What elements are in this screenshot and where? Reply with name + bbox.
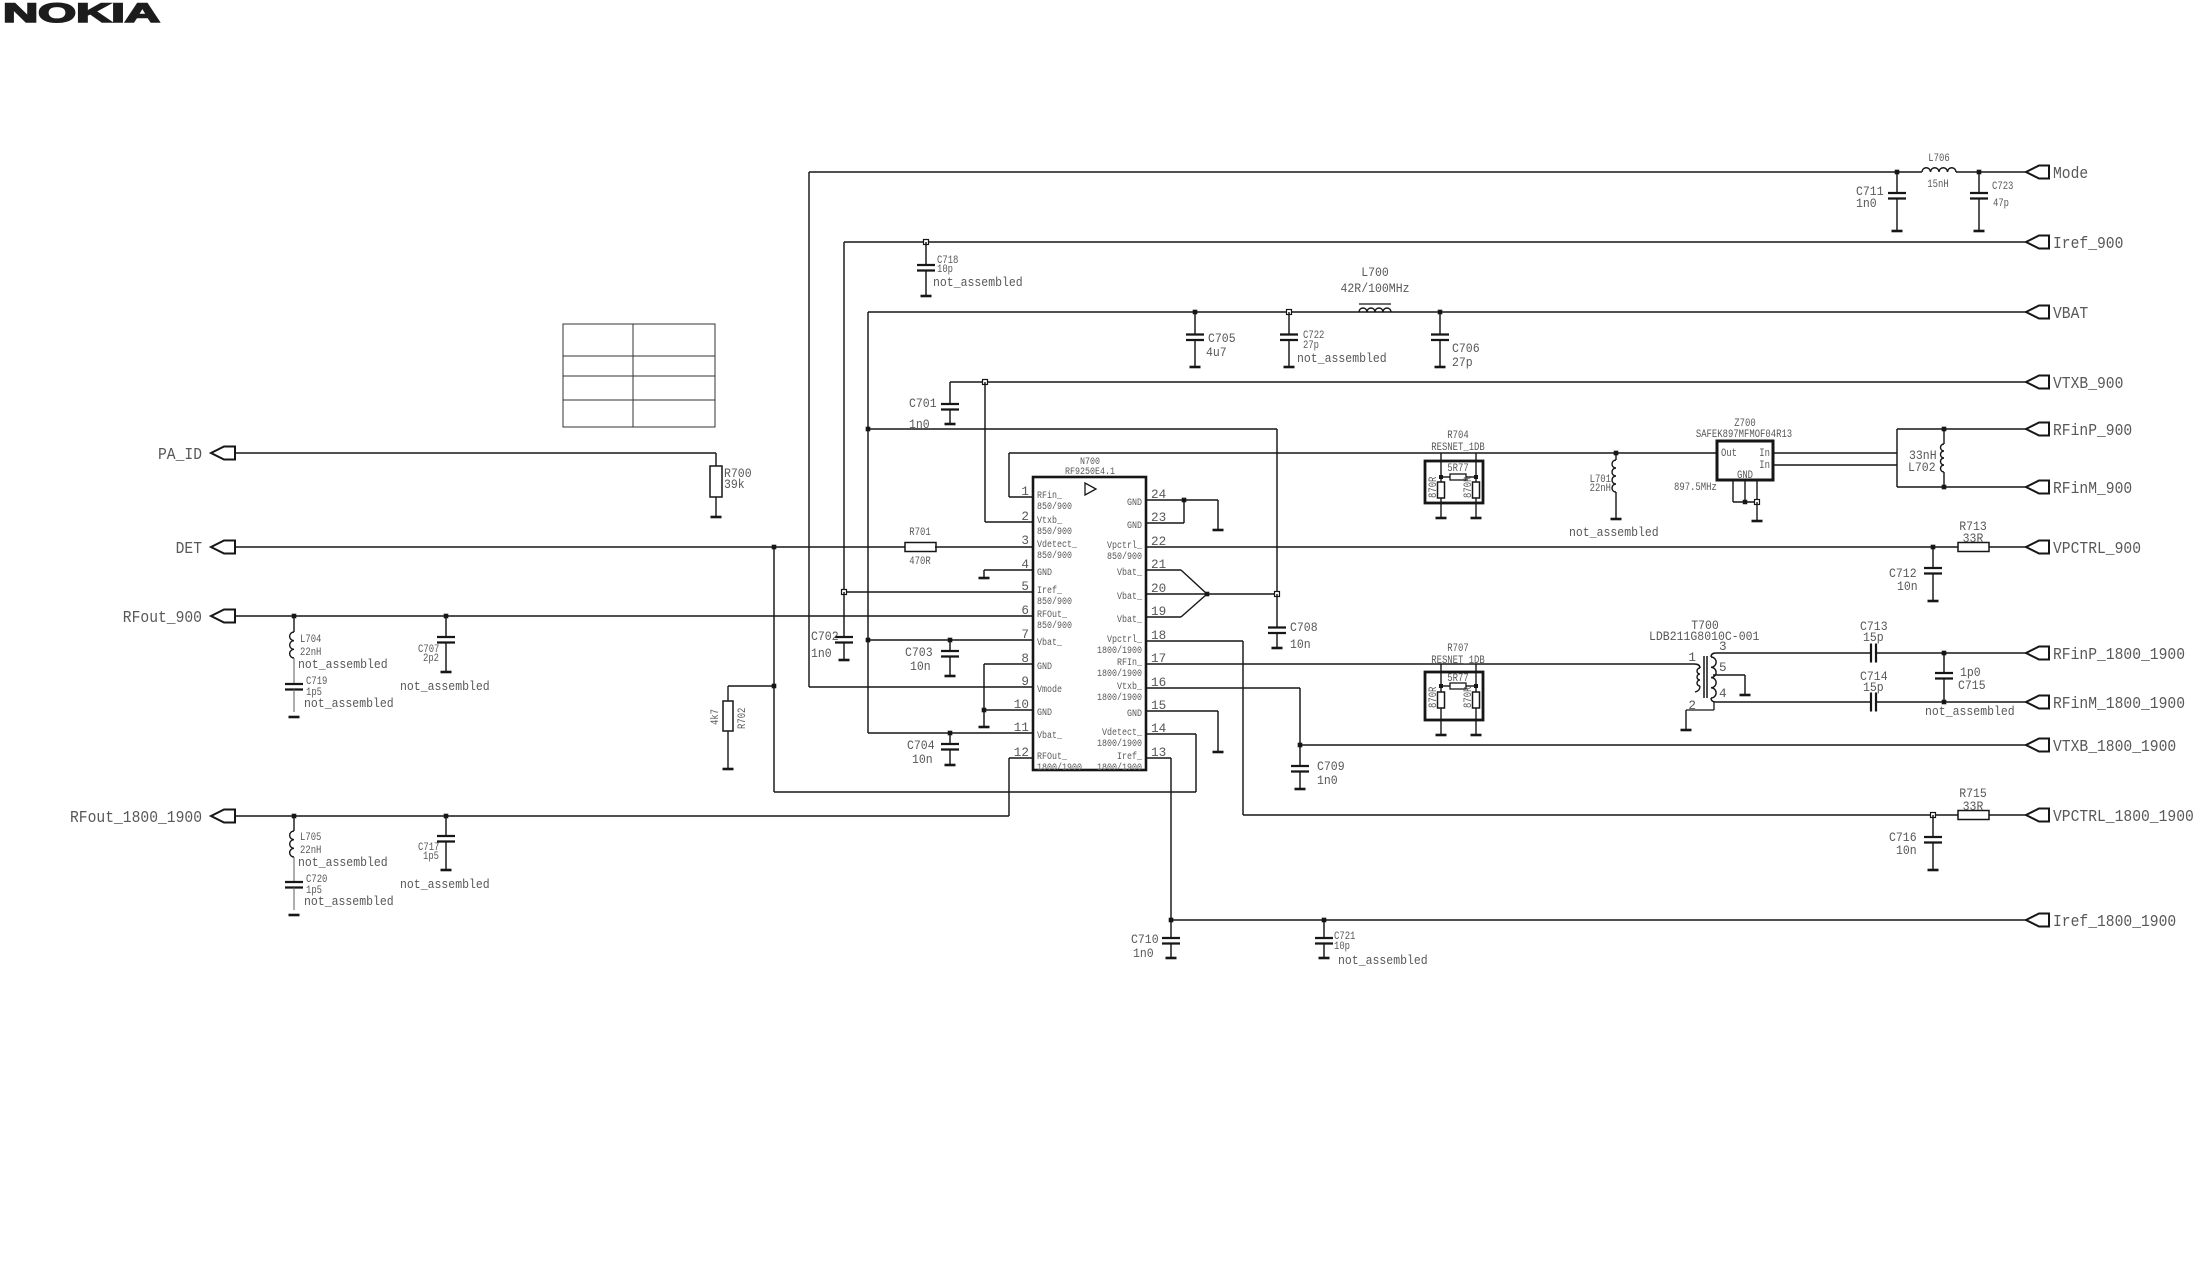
connector VTXB_900 [2026, 376, 2049, 389]
ground [1213, 751, 1224, 754]
ground [979, 726, 990, 729]
capacitor C721 (not assembled) [1323, 920, 1325, 938]
svg-text:R702: R702 [737, 708, 749, 729]
svg-text:850/900: 850/900 [1037, 550, 1072, 562]
capacitor C715 1p0 (not assembled) [1943, 653, 1945, 673]
wire VTXB_900 to pin 2 [984, 382, 986, 522]
svg-text:C715: C715 [1958, 678, 1986, 693]
svg-text:1n0: 1n0 [909, 417, 930, 432]
wire VBAT to pin 7 [868, 639, 1033, 641]
svg-text:VPCTRL_1800_1900: VPCTRL_1800_1900 [2053, 808, 2194, 827]
svg-text:not_assembled: not_assembled [298, 855, 388, 870]
svg-text:2: 2 [1021, 510, 1029, 524]
svg-text:Iref_900: Iref_900 [2053, 235, 2123, 254]
resistor network R707 RESNET_1DB [1425, 672, 1483, 720]
svg-text:Vtxb_: Vtxb_ [1037, 515, 1063, 527]
node C717 top [444, 814, 449, 819]
node L701 top [1614, 451, 1619, 456]
svg-text:1800/1900: 1800/1900 [1097, 645, 1142, 657]
svg-text:RFOut_: RFOut_ [1037, 610, 1068, 621]
node C703 top [948, 638, 953, 643]
svg-text:L706: L706 [1928, 153, 1949, 165]
svg-text:10n: 10n [1290, 637, 1311, 652]
svg-text:42R/100MHz: 42R/100MHz [1341, 281, 1410, 296]
svg-text:C705: C705 [1208, 331, 1236, 346]
connector VPCTRL_900 [2026, 541, 2049, 554]
svg-text:RESNET_1DB: RESNET_1DB [1431, 442, 1485, 454]
resistor network R704 RESNET_1DB [1425, 461, 1483, 503]
junction [1182, 498, 1187, 503]
svg-text:22nH: 22nH [1590, 483, 1611, 495]
ground [1681, 729, 1692, 732]
svg-text:In: In [1759, 448, 1770, 460]
svg-text:14: 14 [1151, 722, 1166, 736]
ground [723, 768, 734, 771]
node C715 bottom [1942, 700, 1947, 705]
ground pins 8,10 [984, 663, 1033, 665]
svg-text:RFinP_1800_1900: RFinP_1800_1900 [2053, 646, 2185, 665]
svg-text:C704: C704 [907, 738, 935, 753]
node C711 top [1895, 170, 1900, 175]
wire T700 pin 4 [1716, 701, 1871, 703]
svg-text:1: 1 [1688, 651, 1696, 665]
svg-text:1800/1900: 1800/1900 [1097, 692, 1142, 704]
junction Vbat [1205, 592, 1210, 597]
ground [1752, 520, 1763, 523]
svg-text:RFIn_: RFIn_ [1117, 658, 1143, 669]
svg-text:VPCTRL_900: VPCTRL_900 [2053, 540, 2141, 559]
node pin2 branch [983, 380, 988, 385]
node L705 top [292, 814, 297, 819]
svg-text:C702: C702 [811, 629, 839, 644]
svg-text:GND: GND [1127, 521, 1142, 532]
capacitor C716 [1932, 815, 1934, 837]
capacitor C718 (not assembled) [925, 242, 927, 265]
svg-text:39k: 39k [724, 477, 745, 492]
svg-text:6: 6 [1021, 604, 1029, 618]
svg-text:L702: L702 [1908, 460, 1936, 475]
svg-text:SAFEK897MFMOF04R13: SAFEK897MFMOF04R13 [1696, 429, 1792, 441]
svg-text:870R: 870R [1428, 476, 1440, 498]
capacitor C717 1p5 (not assembled) [445, 816, 447, 836]
svg-text:R701: R701 [909, 527, 931, 539]
node C705 [1193, 310, 1198, 315]
svg-text:not_assembled: not_assembled [304, 696, 394, 711]
svg-text:In: In [1759, 460, 1770, 472]
svg-text:3: 3 [1719, 640, 1727, 654]
svg-text:not_assembled: not_assembled [400, 679, 490, 694]
ground [711, 516, 722, 519]
capacitor C703 [949, 640, 951, 651]
wire VTXB_900 net [950, 381, 2026, 383]
ground [1740, 694, 1751, 697]
connector RFinM_1800_1900 [2026, 696, 2049, 709]
svg-text:27p: 27p [1452, 355, 1473, 370]
svg-text:10n: 10n [910, 659, 931, 674]
svg-text:9: 9 [1021, 675, 1029, 689]
node C715 top [1942, 651, 1947, 656]
wire T700 pin 3 [1716, 652, 1871, 654]
capacitor C707 2p2 (not assembled) [445, 616, 447, 637]
svg-text:Vtxb_: Vtxb_ [1117, 681, 1143, 693]
svg-text:C710: C710 [1131, 932, 1159, 947]
svg-text:850/900: 850/900 [1107, 551, 1142, 563]
svg-text:5R77: 5R77 [1447, 463, 1468, 475]
svg-text:PA_ID: PA_ID [158, 446, 202, 465]
svg-text:L705: L705 [300, 832, 321, 844]
svg-text:33R: 33R [1963, 531, 1984, 546]
node C706 [1438, 310, 1443, 315]
svg-text:4: 4 [1719, 687, 1727, 701]
svg-text:850/900: 850/900 [1037, 620, 1072, 632]
ground pins 24,23 [1146, 499, 1218, 501]
svg-text:5: 5 [1719, 661, 1727, 675]
node C716 top [1931, 813, 1936, 818]
node C722 [1287, 310, 1292, 315]
capacitor C705 [1194, 312, 1196, 335]
inductor L702 33nH [1943, 429, 1945, 444]
ground [1471, 734, 1482, 737]
svg-text:NOKIA: NOKIA [3, 0, 160, 28]
junction [1743, 500, 1748, 505]
wire VPCTRL_1800_1900 net [1146, 640, 1243, 642]
wire VBAT to pin 11 [868, 732, 1033, 734]
junction [866, 427, 871, 432]
svg-text:C706: C706 [1452, 341, 1480, 356]
connector RFinM_900 [2026, 481, 2049, 494]
svg-text:not_assembled: not_assembled [933, 275, 1023, 290]
svg-text:Iref_1800_1900: Iref_1800_1900 [2053, 913, 2176, 932]
svg-text:not_assembled: not_assembled [304, 894, 394, 909]
capacitor C722 (not assembled) [1288, 312, 1290, 335]
wire RFinM_1800_1900 net [1876, 701, 2026, 703]
connector Mode [2026, 166, 2049, 179]
filter Z700 SAFEK897MFMOF04R13 [1717, 441, 1773, 480]
svg-text:11: 11 [1014, 721, 1029, 735]
ground [1471, 517, 1482, 520]
svg-text:Vbat_: Vbat_ [1117, 591, 1143, 603]
svg-text:1n0: 1n0 [1856, 196, 1877, 211]
junction gnd [982, 708, 987, 713]
wire Iref_900 net [844, 241, 2026, 243]
svg-text:Mode: Mode [2053, 165, 2088, 184]
connector VPCTRL_1800_1900 [2026, 809, 2049, 822]
svg-text:L700: L700 [1361, 265, 1389, 280]
connector Iref_900 [2026, 236, 2049, 249]
svg-text:5R77: 5R77 [1447, 673, 1468, 685]
svg-text:GND: GND [1037, 662, 1052, 673]
wire RFinP_1800_1900 net [1876, 652, 2026, 654]
capacitor C714 15p (series) [1870, 693, 1872, 712]
junction [1474, 475, 1478, 479]
svg-text:33R: 33R [1963, 799, 1984, 814]
svg-text:470R: 470R [909, 556, 931, 568]
resistor R713 33R [1958, 543, 1989, 552]
svg-text:1n0: 1n0 [1133, 946, 1154, 961]
svg-text:22: 22 [1151, 535, 1166, 549]
svg-text:5: 5 [1021, 580, 1029, 594]
connector Iref_1800_1900 [2026, 914, 2049, 927]
capacitor C711 [1896, 172, 1898, 193]
junction (open) [1755, 500, 1760, 505]
svg-text:Vbat_: Vbat_ [1117, 567, 1143, 579]
svg-text:47p: 47p [1993, 198, 2009, 210]
svg-text:not_assembled: not_assembled [1925, 704, 2015, 719]
svg-text:12: 12 [1014, 746, 1029, 760]
connector RFinP_1800_1900 [2026, 647, 2049, 660]
svg-text:2p2: 2p2 [423, 653, 439, 665]
connector DET [211, 541, 235, 554]
junction [1474, 684, 1478, 688]
Z700 GND pins [1732, 480, 1734, 502]
svg-text:Out: Out [1721, 448, 1737, 460]
node C712 top [1931, 545, 1936, 550]
wire VTXB_1800_1900 net [1146, 687, 1300, 689]
junction [1439, 684, 1443, 688]
ground [289, 914, 300, 917]
svg-text:1800/1900: 1800/1900 [1097, 738, 1142, 750]
node L704 top [292, 614, 297, 619]
svg-text:1n0: 1n0 [1317, 773, 1338, 788]
wire pin1 RFin_850/900 net [1009, 452, 1717, 454]
svg-text:Iref_: Iref_ [1117, 751, 1143, 763]
node C702 top [842, 590, 847, 595]
svg-text:10n: 10n [912, 752, 933, 767]
svg-text:870R: 870R [1463, 686, 1475, 708]
svg-text:Vbat_: Vbat_ [1037, 730, 1063, 742]
svg-text:Vpctrl_: Vpctrl_ [1107, 540, 1143, 552]
capacitor C708 [1276, 594, 1278, 628]
wire Vbat pins 19-21 merge [1146, 569, 1181, 571]
svg-text:RFout_1800_1900: RFout_1800_1900 [70, 809, 202, 828]
svg-text:2: 2 [1688, 699, 1696, 713]
node L702 top [1942, 427, 1947, 432]
capacitor C723 [1978, 172, 1980, 193]
svg-text:RF9250E4.1: RF9250E4.1 [1065, 467, 1115, 478]
svg-text:Vmode: Vmode [1037, 684, 1062, 696]
svg-text:Vbat_: Vbat_ [1117, 614, 1143, 626]
wire RFout_900 net [235, 615, 1033, 617]
node C707 top [444, 614, 449, 619]
connector VBAT [2026, 306, 2049, 319]
svg-text:1800/1900: 1800/1900 [1037, 762, 1082, 774]
inductor L700 ferrite bead [1359, 308, 1391, 312]
junction [1439, 475, 1443, 479]
capacitor C701 [949, 382, 951, 404]
IC buffer triangle [1085, 483, 1096, 495]
wire VPCTRL_900 net [1146, 546, 1958, 548]
ground [1436, 517, 1447, 520]
wire Z700 In1 [1773, 452, 1897, 454]
capacitor C706 [1439, 312, 1441, 335]
IC N700 RF9250E4.1 body [1033, 477, 1146, 770]
svg-text:RFinP_900: RFinP_900 [2053, 422, 2132, 441]
node C723 top [1977, 170, 1982, 175]
svg-text:1n0: 1n0 [811, 646, 832, 661]
svg-text:C701: C701 [909, 396, 937, 411]
svg-text:RFin_: RFin_ [1037, 490, 1063, 502]
connector RFout_900 [211, 610, 235, 623]
svg-text:not_assembled: not_assembled [400, 877, 490, 892]
svg-text:850/900: 850/900 [1037, 596, 1072, 608]
svg-text:7: 7 [1021, 628, 1029, 642]
svg-text:10n: 10n [1897, 579, 1918, 594]
ground [289, 716, 300, 719]
svg-text:L704: L704 [300, 634, 322, 646]
wire DET to pin 14 [774, 791, 1196, 793]
junction R702 branch [772, 684, 777, 689]
resistor R701 470R [905, 543, 936, 552]
connector VTXB_1800_1900 [2026, 739, 2049, 752]
capacitor C712 [1932, 547, 1934, 568]
svg-text:Vbat_: Vbat_ [1037, 637, 1063, 649]
svg-text:Vdetect_: Vdetect_ [1037, 539, 1078, 551]
svg-text:1800/1900: 1800/1900 [1097, 668, 1142, 680]
node C718 top [924, 240, 929, 245]
capacitor C710 [1170, 920, 1172, 938]
node C708 top [1275, 592, 1280, 597]
resistor R702 4k7 [727, 686, 729, 701]
svg-text:DET: DET [176, 540, 202, 559]
capacitor C704 [949, 733, 951, 744]
wire RFinP_900 net [1896, 429, 1898, 487]
svg-text:897.5MHz: 897.5MHz [1674, 482, 1717, 494]
connector RFout_1800_1900 [211, 810, 235, 823]
svg-text:C723: C723 [1992, 181, 2013, 193]
wire VBAT net [868, 311, 2026, 313]
wire T700 pin 5 to ground [1713, 674, 1745, 676]
svg-text:C703: C703 [905, 645, 933, 660]
inductor L704 22nH (not assembled) [293, 616, 295, 632]
svg-text:RFinM_1800_1900: RFinM_1800_1900 [2053, 695, 2185, 714]
junction DET [772, 545, 777, 550]
ground [1611, 518, 1622, 521]
svg-text:850/900: 850/900 [1037, 501, 1072, 513]
svg-text:C708: C708 [1290, 620, 1318, 635]
svg-text:RESNET_1DB: RESNET_1DB [1431, 655, 1485, 667]
svg-text:1: 1 [1021, 485, 1029, 499]
revision table [563, 324, 715, 427]
svg-text:not_assembled: not_assembled [298, 657, 388, 672]
svg-text:1800/1900: 1800/1900 [1097, 762, 1142, 774]
svg-text:870R: 870R [1463, 476, 1475, 498]
svg-text:not_assembled: not_assembled [1569, 525, 1659, 540]
svg-text:R704: R704 [1447, 430, 1469, 442]
svg-text:15p: 15p [1863, 680, 1884, 695]
capacitor C709 [1299, 745, 1301, 766]
svg-text:4u7: 4u7 [1206, 345, 1227, 360]
resistor R715 33R [1958, 811, 1989, 820]
node C710 top [1169, 918, 1174, 923]
ground [979, 577, 990, 580]
svg-text:GND: GND [1037, 568, 1052, 579]
svg-text:870R: 870R [1428, 686, 1440, 708]
svg-text:15nH: 15nH [1927, 179, 1948, 191]
svg-text:Vpctrl_: Vpctrl_ [1107, 634, 1143, 646]
wire Iref_1800_1900 net [1146, 757, 1171, 759]
node C704 top [948, 731, 953, 736]
svg-text:not_assembled: not_assembled [1297, 351, 1387, 366]
svg-text:not_assembled: not_assembled [1338, 953, 1428, 968]
ground pin 15 [1146, 710, 1218, 712]
svg-text:LDB211G8010C-001: LDB211G8010C-001 [1649, 629, 1760, 644]
capacitor C720 1p5 (not assembled) [285, 881, 303, 883]
wire DET net [235, 546, 905, 548]
svg-text:GND: GND [1127, 709, 1142, 720]
svg-text:VTXB_900: VTXB_900 [2053, 375, 2123, 394]
svg-text:RFout_900: RFout_900 [123, 609, 202, 628]
wire pin 17 RFIn_1800/1900 net [1146, 663, 1694, 665]
wire PA_ID net [235, 452, 716, 454]
node C721 top [1322, 918, 1327, 923]
wire Z700 In2 [1773, 464, 1897, 466]
svg-text:R707: R707 [1447, 643, 1468, 655]
svg-text:VTXB_1800_1900: VTXB_1800_1900 [2053, 738, 2176, 757]
junction [866, 638, 871, 643]
capacitor C713 15p (series) [1870, 644, 1872, 663]
inductor L706 [1922, 168, 1956, 172]
wire RFinM_900 net [1897, 486, 2026, 488]
svg-text:3: 3 [1021, 534, 1029, 548]
node L702 bottom [1942, 485, 1947, 490]
wire RFout_1800_1900 net [235, 815, 1009, 817]
svg-text:15p: 15p [1863, 630, 1884, 645]
wire Mode net [809, 171, 1897, 173]
capacitor C719 1p5 (not assembled) [285, 683, 303, 685]
svg-text:RFinM_900: RFinM_900 [2053, 480, 2132, 499]
svg-text:10n: 10n [1896, 843, 1917, 858]
ground [1436, 734, 1447, 737]
svg-text:Vdetect_: Vdetect_ [1102, 727, 1143, 739]
svg-text:850/900: 850/900 [1037, 526, 1072, 538]
svg-text:10p: 10p [1334, 941, 1350, 953]
resistor R700 39k [710, 466, 722, 497]
wire VBAT branch to Vbat pins 19-21 [868, 428, 1277, 430]
svg-text:C709: C709 [1317, 759, 1345, 774]
ground pin 4 [984, 569, 1033, 571]
inductor L705 22nH (not assembled) [293, 816, 295, 831]
node C709 top [1298, 743, 1303, 748]
svg-text:4k7: 4k7 [710, 709, 722, 725]
ground [1213, 529, 1224, 532]
connector RFinP_900 [2026, 423, 2049, 436]
svg-text:Iref_: Iref_ [1037, 585, 1063, 597]
svg-text:VBAT: VBAT [2053, 305, 2088, 324]
wire T700 pin 2 to ground [1713, 702, 1715, 710]
capacitor C702 [843, 592, 845, 637]
connector PA_ID [211, 447, 235, 460]
svg-text:GND: GND [1037, 708, 1052, 719]
svg-text:RFOut_: RFOut_ [1037, 752, 1068, 763]
svg-text:GND: GND [1127, 498, 1142, 509]
svg-text:1p5: 1p5 [423, 851, 439, 863]
